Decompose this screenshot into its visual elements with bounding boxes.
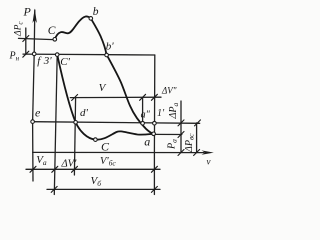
svg-text:3': 3' — [43, 55, 53, 67]
svg-text:ΔPа: ΔPа — [168, 103, 180, 120]
svg-text:v: v — [207, 157, 211, 167]
svg-text:d': d' — [80, 107, 89, 119]
svg-text:Pа: Pа — [167, 139, 179, 150]
svg-text:V: V — [99, 82, 107, 94]
svg-text:a: a — [144, 134, 150, 148]
svg-text:C: C — [48, 25, 56, 37]
svg-text:P: P — [23, 5, 32, 19]
svg-text:ΔPвс: ΔPвс — [184, 133, 196, 153]
svg-text:b': b' — [106, 41, 115, 53]
svg-text:Vб: Vб — [91, 175, 102, 188]
svg-text:Pн: Pн — [9, 51, 20, 63]
svg-text:e: e — [35, 106, 41, 120]
svg-text:ΔPc: ΔPc — [14, 21, 25, 37]
svg-text:C': C' — [60, 56, 70, 68]
svg-text:f: f — [37, 55, 42, 67]
svg-text:b: b — [93, 6, 99, 18]
svg-text:C: C — [101, 140, 110, 154]
svg-text:ΔV': ΔV' — [61, 158, 78, 169]
svg-text:Vа: Vа — [36, 154, 47, 167]
svg-text:a": a" — [141, 109, 151, 120]
svg-text:V'бс: V'бс — [100, 156, 116, 168]
svg-text:ΔV": ΔV" — [161, 86, 177, 96]
svg-text:1': 1' — [157, 108, 165, 119]
